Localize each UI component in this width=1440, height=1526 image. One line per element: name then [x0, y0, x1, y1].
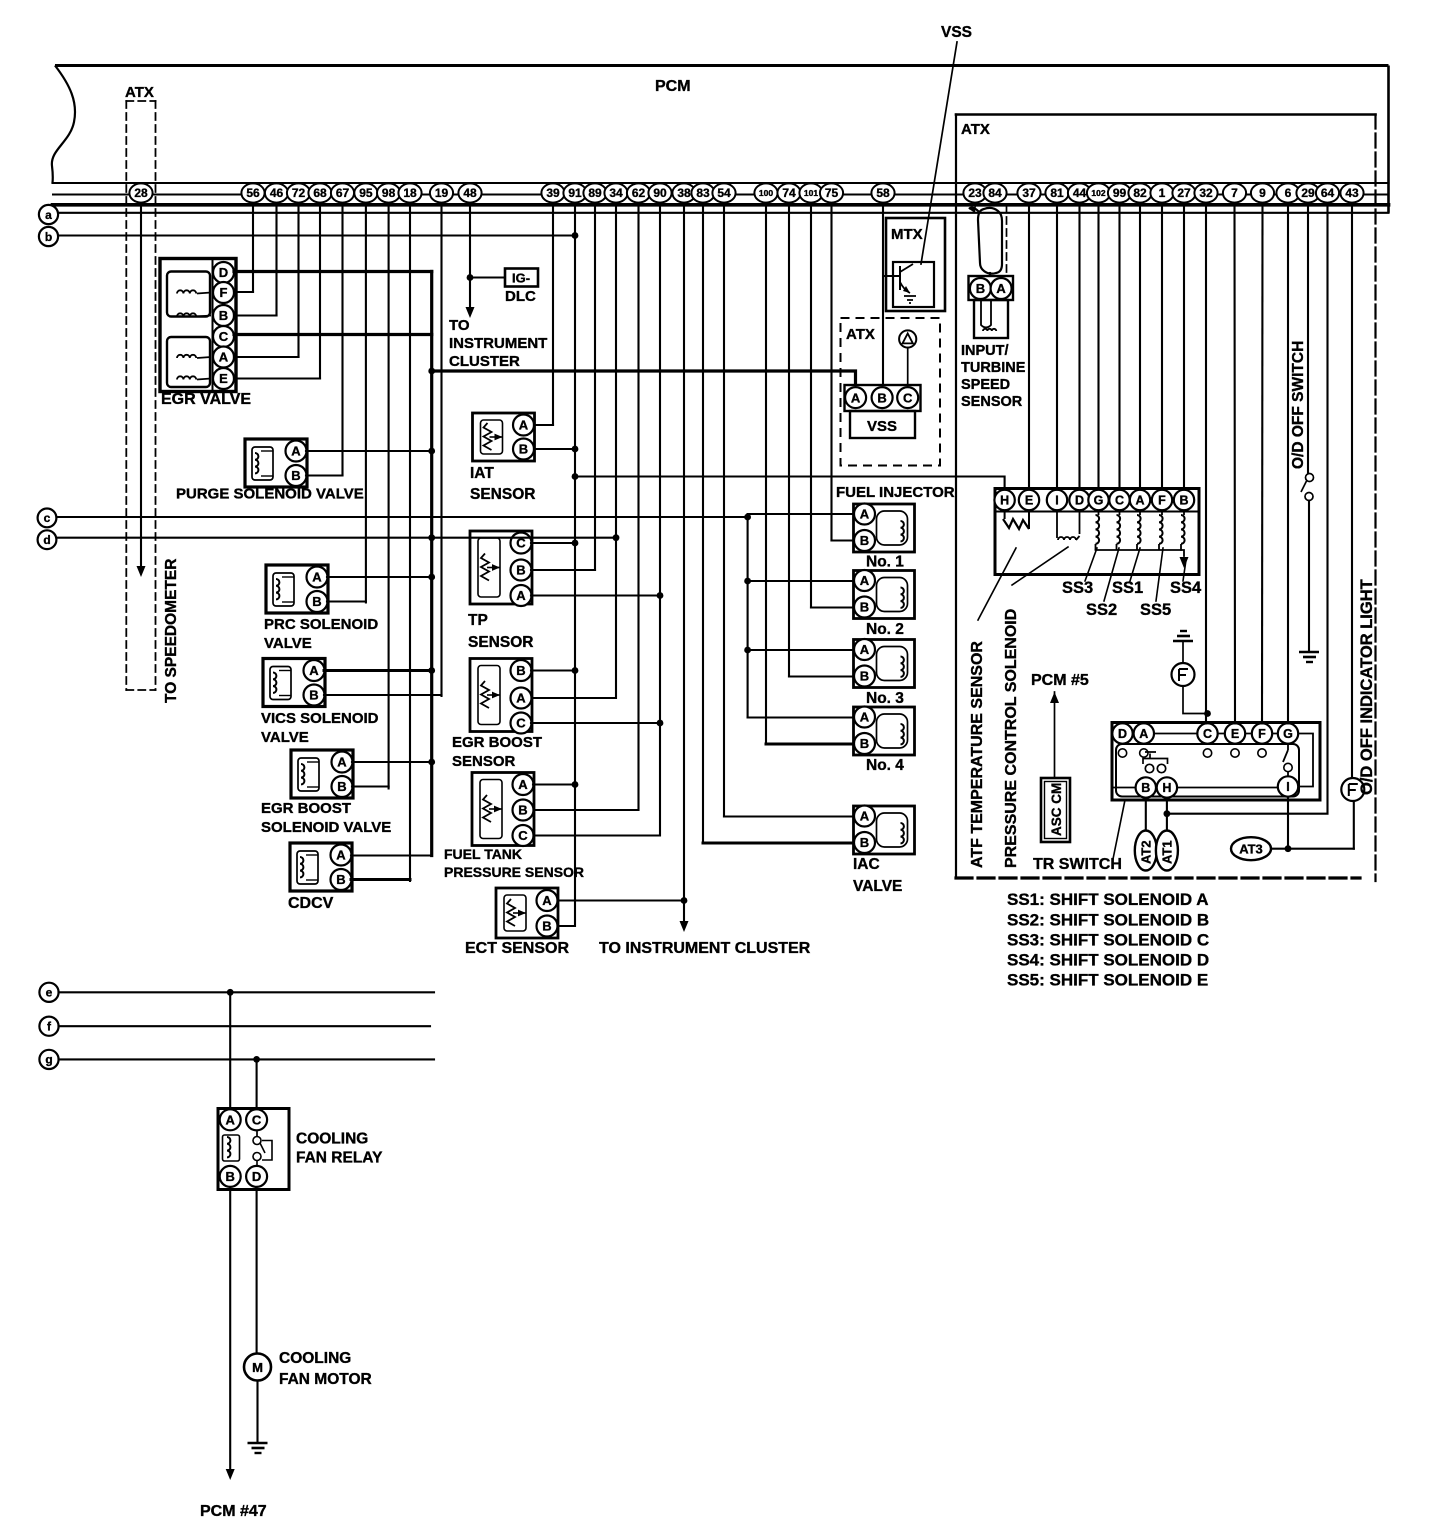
wire IAT A to pin 39 [534, 424, 553, 426]
EGR boost solenoid valve [291, 750, 353, 798]
svg-text:34: 34 [609, 186, 623, 200]
svg-text:IG-: IG- [512, 271, 530, 286]
wire row c to injector common [57, 516, 748, 518]
svg-text:90: 90 [653, 186, 667, 200]
svg-text:AT1: AT1 [1160, 840, 1175, 864]
svg-text:O/D OFF SWITCH: O/D OFF SWITCH [1290, 341, 1307, 469]
wire pin 28 to speedometer [140, 204, 142, 565]
svg-text:D: D [252, 1169, 261, 1184]
wire pin 72 to EGR A [297, 204, 299, 357]
svg-text:SENSOR: SENSOR [468, 634, 533, 651]
svg-text:PCM #5: PCM #5 [1031, 672, 1089, 689]
node b [39, 227, 58, 246]
svg-text:74: 74 [782, 186, 796, 200]
shift solenoid coil at 1119.5 [1119, 510, 1121, 515]
wire +B supply net vertical [430, 272, 433, 856]
junction [1204, 710, 1211, 717]
svg-text:SS3: SS3 [1062, 579, 1093, 597]
svg-text:C: C [1115, 494, 1124, 508]
svg-text:G: G [1283, 727, 1293, 741]
ASC CM box [1041, 778, 1070, 842]
wire PRC B to pin 95 [327, 600, 366, 602]
svg-text:A: A [219, 350, 229, 365]
wire pin 89 to TP B [532, 204, 596, 570]
svg-text:23: 23 [968, 186, 982, 200]
input/turbine speed sensor pigtail [969, 208, 1002, 274]
svg-text:E: E [1025, 494, 1033, 508]
wire pin 29 to O/D off switch [1307, 204, 1309, 473]
wire injector 1 A [748, 513, 854, 515]
wire ATX left box bottom [126, 689, 155, 691]
svg-text:A: A [336, 848, 346, 863]
wire IAC A to pin 54 [724, 815, 854, 817]
svg-text:TURBINE: TURBINE [961, 360, 1026, 376]
wire +B net to VSS A [432, 371, 856, 387]
wire pin 83 to IAC B [702, 204, 704, 843]
junction [572, 232, 579, 239]
svg-text:VALVE: VALVE [264, 635, 312, 652]
pin 62 [627, 183, 650, 202]
svg-text:95: 95 [359, 186, 373, 200]
svg-text:c: c [44, 511, 51, 525]
transistor inside MTX [883, 262, 934, 307]
wire shift solenoid common [1096, 549, 1182, 551]
wire ATX box bottom edge [956, 876, 1360, 879]
ground (O/D off switch) [1299, 652, 1319, 662]
wire fuel tank pressure A to ground net [533, 783, 575, 785]
svg-text:MTX: MTX [891, 226, 923, 243]
svg-text:62: 62 [632, 186, 646, 200]
svg-text:67: 67 [336, 186, 350, 200]
wire pin 9 to TR F [1261, 204, 1264, 723]
wire pin 6 to TR G [1287, 204, 1289, 723]
svg-text:ATF TEMPERATURE SENSOR: ATF TEMPERATURE SENSOR [969, 641, 986, 868]
lamp/diode symbol [1172, 663, 1195, 686]
node e [39, 983, 58, 1002]
svg-text:D: D [1118, 727, 1127, 741]
junction [572, 540, 579, 547]
svg-text:A: A [226, 1112, 236, 1127]
svg-text:A: A [519, 418, 529, 433]
pin 23 [963, 183, 986, 202]
pin 32 [1194, 183, 1217, 202]
svg-text:SENSOR: SENSOR [452, 753, 516, 770]
svg-text:B: B [860, 669, 869, 684]
wire pin 58 to VSS B [882, 204, 884, 390]
pin 99 [1108, 183, 1131, 202]
svg-text:ECT SENSOR: ECT SENSOR [465, 940, 569, 957]
IAC valve [854, 806, 915, 855]
svg-text:A: A [1139, 727, 1148, 741]
svg-text:O/D OFF INDICATOR LIGHT: O/D OFF INDICATOR LIGHT [1358, 579, 1376, 795]
pressure control solenoid element [1057, 510, 1080, 538]
svg-text:B: B [219, 308, 228, 323]
svg-text:DLC: DLC [505, 288, 536, 305]
wire pin 7 to TR E [1233, 204, 1236, 723]
wire SS3 leader [1085, 548, 1097, 581]
svg-text:ATX: ATX [846, 326, 875, 343]
wire pin 46 to EGR B [275, 204, 277, 316]
svg-text:FAN MOTOR: FAN MOTOR [279, 1371, 372, 1388]
junction [428, 574, 435, 581]
pin 101 [799, 183, 822, 202]
pin 39 [541, 183, 564, 202]
purge solenoid valve [245, 439, 307, 487]
svg-text:B: B [860, 835, 869, 850]
svg-text:SS2: SS2 [1086, 601, 1117, 619]
svg-text:PURGE SOLENOID VALVE: PURGE SOLENOID VALVE [176, 486, 364, 503]
fuel injector No.2 [854, 570, 915, 619]
AT3 connector [1231, 837, 1271, 860]
wire pin 62 to fuel tank pressure B [534, 204, 639, 810]
svg-text:b: b [45, 230, 52, 244]
svg-text:6: 6 [1285, 186, 1292, 200]
wire row g [59, 1058, 435, 1060]
MTX box [886, 218, 945, 311]
PCM box torn left edge [52, 66, 75, 184]
svg-text:43: 43 [1345, 186, 1359, 200]
fuel injector No.4 [854, 707, 915, 756]
O/D off indicator light [1341, 778, 1364, 801]
wire cooling fan motor to ground [256, 1381, 258, 1444]
pin 68 [308, 183, 331, 202]
arrow to PCM #47 [226, 1469, 235, 1480]
shift solenoid coil at 1140 [1139, 510, 1141, 515]
svg-text:VICS SOLENOID: VICS SOLENOID [261, 710, 379, 727]
junction [572, 446, 579, 453]
pin 74 [777, 183, 800, 202]
wire SS1 leader [1130, 548, 1140, 581]
junction [681, 897, 688, 904]
svg-text:PCM: PCM [655, 78, 691, 95]
wire ECT A to pin 38 net [558, 899, 684, 901]
wire pin 67 to purge B [341, 204, 343, 475]
junction [428, 667, 435, 674]
svg-text:A: A [860, 573, 870, 588]
wire relay B to PCM #47 [229, 1187, 231, 1468]
EGR boost sensor [470, 659, 532, 734]
svg-text:SENSOR: SENSOR [470, 486, 535, 503]
wire pin 38 to instrument cluster [683, 204, 685, 920]
svg-text:72: 72 [292, 186, 306, 200]
pin 84 [983, 183, 1006, 202]
svg-text:TR SWITCH: TR SWITCH [1033, 856, 1122, 873]
pin 43 [1340, 183, 1363, 202]
svg-text:39: 39 [546, 186, 560, 200]
svg-text:d: d [43, 533, 50, 547]
svg-text:B: B [860, 533, 869, 548]
wire pin 54 to IAC A [723, 204, 725, 817]
wire ATX left box right edge [155, 101, 157, 690]
svg-text:EGR BOOST: EGR BOOST [452, 734, 542, 751]
svg-text:B: B [518, 803, 527, 818]
wire pin to solenoid block [1139, 204, 1141, 490]
wire pin 48 down [469, 204, 471, 306]
svg-text:91: 91 [568, 186, 582, 200]
arrow to speedometer [137, 566, 146, 577]
svg-text:ATX: ATX [961, 121, 990, 138]
IAT sensor [473, 413, 535, 461]
wire O/D off switch to ground [1308, 501, 1310, 653]
wire PRC A to +B net [327, 576, 432, 578]
svg-text:F: F [1158, 494, 1166, 508]
svg-text:B: B [860, 600, 869, 615]
wire pin to solenoid block [1183, 204, 1185, 490]
svg-text:A: A [851, 390, 861, 405]
wire pin 90 shared 5V ref [534, 204, 661, 836]
wire bus line 1 [53, 182, 1389, 184]
wire pin 95 to PRC B [365, 204, 367, 603]
junction [657, 592, 664, 599]
svg-text:E: E [1231, 727, 1239, 741]
wire EGR boost sensor B to ground net [531, 669, 575, 671]
wire CDCV A to +B net [351, 854, 432, 856]
junction [572, 473, 579, 480]
wire ground to lamp [1182, 641, 1184, 663]
wire pin 101 to injector 2 B [810, 204, 812, 608]
pin 56 [241, 183, 264, 202]
junction [657, 720, 664, 727]
wire EGR D to +B net [234, 270, 432, 273]
svg-text:CDCV: CDCV [288, 895, 334, 912]
wire row e [59, 991, 435, 993]
svg-text:C: C [518, 828, 528, 843]
svg-text:COOLING: COOLING [296, 1131, 368, 1148]
pin 90 [648, 183, 671, 202]
wire ATX left box left edge [125, 101, 127, 690]
wire injector 4 A [748, 716, 854, 718]
svg-text:68: 68 [313, 186, 327, 200]
pin 28 [129, 183, 152, 202]
svg-text:46: 46 [270, 186, 284, 200]
wire EGR E to pin 68 [234, 377, 320, 379]
svg-text:A: A [860, 507, 870, 522]
wire injector 4 B to pin 100 [766, 743, 854, 746]
svg-text:A: A [337, 755, 347, 770]
junction [428, 759, 435, 766]
svg-text:TO INSTRUMENT CLUSTER: TO INSTRUMENT CLUSTER [599, 940, 811, 957]
wire EGR F to pin 56 [234, 291, 253, 293]
VICS solenoid valve [263, 659, 325, 707]
svg-text:84: 84 [988, 186, 1002, 200]
wire bus line 2 [53, 194, 1389, 196]
svg-text:No. 3: No. 3 [866, 690, 904, 707]
wire TR switch leader [1113, 800, 1125, 859]
wire pin 18 to CDCV B [409, 204, 411, 881]
svg-text:VALVE: VALVE [261, 729, 309, 746]
pin 38 [672, 183, 695, 202]
AT1 connector [1156, 831, 1178, 871]
wire row a [58, 212, 1389, 214]
arrow pin 48 to instrument cluster [466, 307, 475, 318]
wire lamp to TR C net [1183, 686, 1208, 714]
wire ATX dashed boundary [1006, 205, 1008, 273]
svg-text:No. 1: No. 1 [866, 554, 904, 571]
svg-text:B: B [516, 663, 525, 678]
VSS connector [845, 385, 921, 438]
IG-DLC connector [505, 269, 538, 306]
pin 100 [754, 183, 777, 202]
fuel injector No.1 [854, 504, 915, 553]
PCM box right edge [1387, 66, 1390, 213]
ground (diode/lamp branch) [1173, 631, 1193, 641]
wire ATX left box top [126, 100, 155, 102]
PCM box top edge [55, 64, 1389, 67]
svg-text:19: 19 [435, 186, 449, 200]
pin 27 [1172, 183, 1195, 202]
svg-text:VSS: VSS [867, 418, 897, 435]
svg-text:SS1: SS1 [1112, 579, 1143, 597]
pin 44 [1068, 183, 1091, 202]
svg-text:B: B [291, 468, 300, 483]
fuel tank pressure sensor [472, 773, 534, 847]
wire pin 75 to injector 1 B [830, 204, 832, 541]
svg-text:C: C [903, 390, 913, 405]
wire AT3 to indicator lamp [1271, 848, 1354, 850]
wire injector 1 B to pin 75 [832, 539, 854, 541]
svg-text:B: B [542, 919, 551, 934]
wire pin 68 to EGR E [319, 204, 321, 379]
svg-text:A: A [309, 663, 319, 678]
wire to block internal ground [1181, 550, 1184, 556]
wire injector A common vertical [747, 514, 749, 718]
node c [38, 509, 57, 528]
svg-text:48: 48 [463, 186, 477, 200]
svg-text:COOLING: COOLING [279, 1350, 351, 1367]
EGR valve [160, 259, 236, 392]
speed sensor symbol [899, 330, 916, 347]
TP sensor [470, 531, 532, 606]
svg-text:A: A [1135, 494, 1144, 508]
pin 6 [1276, 183, 1299, 202]
svg-text:101: 101 [804, 188, 818, 198]
wire pin 39 to IAT A [535, 204, 553, 425]
wire injector 3 A [748, 649, 854, 651]
junction [613, 534, 620, 541]
wire indicator lamp down leg [1353, 801, 1355, 849]
node g [39, 1050, 58, 1069]
svg-text:FUEL TANK: FUEL TANK [444, 846, 522, 862]
svg-text:C: C [252, 1112, 262, 1127]
arrow block internal ground [1180, 557, 1189, 568]
svg-text:TO: TO [449, 317, 470, 334]
pin 46 [265, 183, 288, 202]
svg-text:B: B [336, 872, 345, 887]
wire pin 32 to TR C [1205, 204, 1207, 723]
wire ground net to ATF sensor H [575, 477, 1005, 490]
wire EGR A to pin 72 [234, 356, 299, 358]
wire row f [59, 1025, 431, 1027]
wire injector 2 A [748, 580, 854, 582]
svg-text:AT2: AT2 [1139, 840, 1154, 864]
pin 37 [1017, 183, 1040, 202]
svg-text:e: e [46, 986, 53, 1000]
ATF temperature sensor element [1005, 510, 1029, 529]
wire pigtail to input sensor connector [989, 273, 991, 276]
svg-text:EGR BOOST: EGR BOOST [261, 800, 351, 817]
wire pin to solenoid block [1118, 204, 1120, 490]
wire TR I down [1287, 797, 1289, 849]
wire EGR boost solenoid B to pin 98 [352, 785, 389, 787]
wire ASC CM to PCM #5 [1054, 692, 1056, 778]
wire pin to solenoid block [1097, 204, 1099, 490]
svg-text:SS4: SHIFT SOLENOID D: SS4: SHIFT SOLENOID D [1007, 951, 1209, 970]
svg-text:32: 32 [1199, 186, 1213, 200]
wire IAT B to ground net [534, 448, 575, 450]
ground (cooling fan motor) [248, 1443, 268, 1453]
wire ATX box top edge [956, 113, 1376, 116]
svg-text:18: 18 [403, 186, 417, 200]
svg-text:27: 27 [1177, 186, 1191, 200]
svg-text:83: 83 [696, 186, 710, 200]
svg-text:H: H [1162, 781, 1171, 795]
svg-text:PCM #47: PCM #47 [200, 1503, 267, 1520]
pin 48 [458, 183, 481, 202]
wire ATF temperature sensor leader [978, 548, 1016, 620]
junction [1285, 845, 1292, 852]
svg-text:SS4: SS4 [1170, 579, 1202, 597]
wire ATX box right edge [1374, 115, 1376, 882]
pin 34 [604, 183, 627, 202]
svg-text:SS3: SHIFT SOLENOID C: SS3: SHIFT SOLENOID C [1007, 931, 1209, 950]
junction [227, 989, 234, 996]
svg-text:IAT: IAT [470, 465, 494, 482]
svg-text:C: C [219, 329, 229, 344]
pin 98 [377, 183, 400, 202]
shift solenoid coil at 1162 [1161, 510, 1163, 515]
svg-text:B: B [519, 442, 528, 457]
pin 91 [563, 183, 586, 202]
pin 29 [1296, 183, 1319, 202]
PRC solenoid valve [266, 565, 328, 613]
svg-text:89: 89 [588, 186, 602, 200]
junction [428, 368, 435, 375]
wire TP C to ground net [531, 542, 575, 544]
junction [744, 647, 751, 654]
svg-text:7: 7 [1231, 186, 1238, 200]
svg-text:SS2: SHIFT SOLENOID B: SS2: SHIFT SOLENOID B [1007, 911, 1209, 930]
cooling fan relay [218, 1109, 289, 1190]
wire ATX box left edge [955, 115, 957, 879]
svg-text:M: M [252, 1360, 263, 1375]
svg-text:INSTRUMENT: INSTRUMENT [449, 335, 547, 352]
wire pin 43 to O/D off indicator light [1351, 204, 1353, 778]
svg-text:B: B [309, 688, 318, 703]
svg-text:FUEL INJECTOR: FUEL INJECTOR [836, 484, 955, 501]
wire injector 3 B to pin 74 [789, 675, 854, 677]
svg-text:SS5: SHIFT SOLENOID E: SS5: SHIFT SOLENOID E [1007, 971, 1208, 990]
svg-text:PRESSURE SENSOR: PRESSURE SENSOR [444, 864, 584, 880]
pin 58 [871, 183, 894, 202]
wire speed sensor to VSS C [907, 348, 909, 387]
svg-text:TP: TP [468, 612, 488, 629]
wire pin 64 to TR H [1167, 204, 1328, 814]
pin 54 [712, 183, 735, 202]
svg-text:A: A [542, 893, 552, 908]
pin 1 [1150, 183, 1173, 202]
junction [572, 667, 579, 674]
wire pin to solenoid block [1161, 204, 1163, 490]
junction [744, 514, 751, 521]
svg-text:75: 75 [825, 186, 839, 200]
svg-text:B: B [226, 1169, 235, 1184]
svg-text:IAC: IAC [853, 856, 880, 873]
wire EGR boost solenoid A to +B net [352, 761, 432, 763]
wire pin 56 to EGR F [252, 204, 254, 292]
svg-text:98: 98 [382, 186, 396, 200]
input/turbine speed sensor connector [969, 276, 1014, 338]
wire SS4 leader [1183, 560, 1186, 581]
